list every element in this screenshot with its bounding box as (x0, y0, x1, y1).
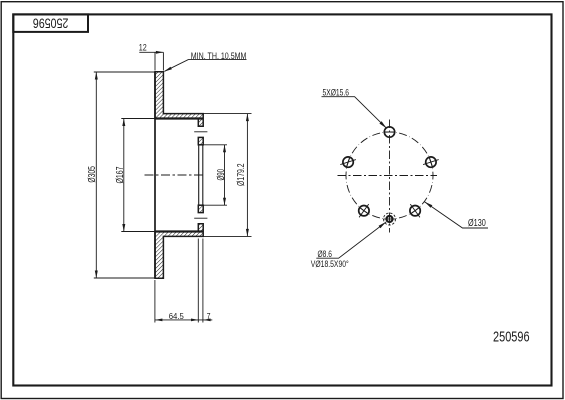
svg-text:Ø90: Ø90 (216, 169, 227, 181)
svg-text:Ø305: Ø305 (87, 166, 98, 183)
svg-text:250596: 250596 (33, 16, 69, 31)
svg-text:7: 7 (207, 311, 211, 321)
svg-text:250596: 250596 (493, 330, 530, 346)
svg-text:12: 12 (139, 42, 147, 53)
svg-text:64.5: 64.5 (169, 311, 184, 321)
svg-text:Ø130: Ø130 (468, 218, 486, 229)
svg-text:Ø167: Ø167 (115, 167, 126, 184)
svg-text:VØ18.5X90°: VØ18.5X90° (311, 259, 349, 270)
svg-text:Ø179.2: Ø179.2 (236, 163, 247, 186)
